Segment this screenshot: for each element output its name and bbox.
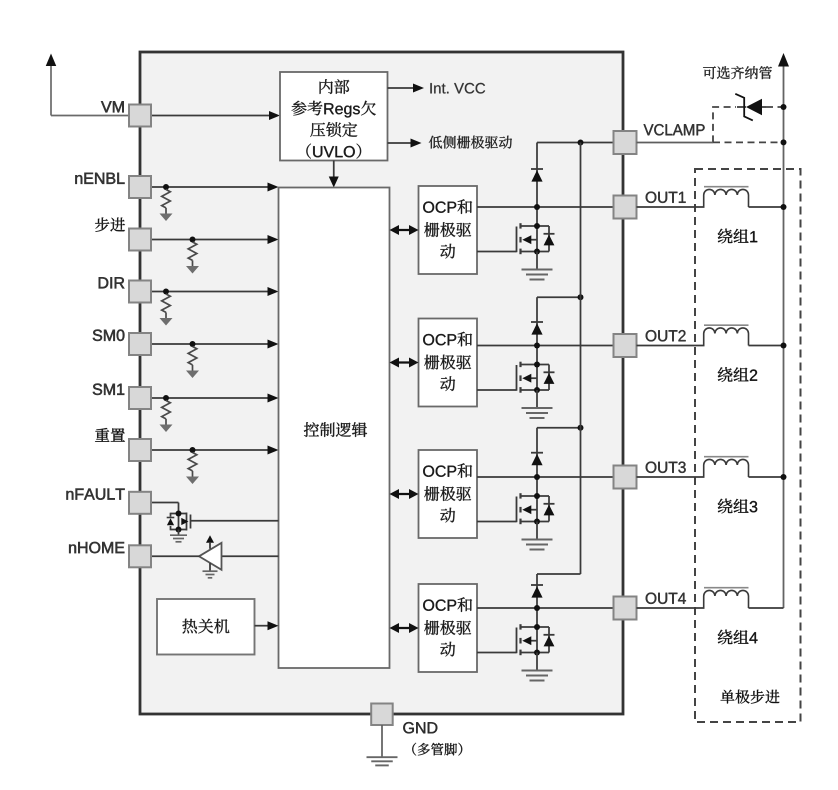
- clamp diode D2: [531, 297, 543, 348]
- wire winding 2 to supply rail: [749, 343, 787, 349]
- pull-down resistor on SM0: [186, 341, 199, 378]
- internal VCLAMP rail vertical: [580, 143, 582, 575]
- pin pad DIR: [129, 281, 151, 303]
- bidirectional bus arrow control logic to OCP 4: [390, 623, 419, 633]
- pin label 重置: [95, 428, 125, 442]
- motor winding L4: [704, 588, 749, 608]
- bidirectional bus arrow control logic to OCP 2: [390, 358, 419, 368]
- buffer U3 (nHOME output driver): [199, 535, 222, 571]
- bidirectional bus arrow control logic to OCP 1: [390, 225, 419, 235]
- pin label OUT3: [646, 462, 686, 473]
- junction vclamp dashed: [781, 139, 787, 145]
- wire VM external: [51, 115, 130, 117]
- motor winding L2: [704, 325, 749, 345]
- wire SM1 input: [151, 394, 279, 403]
- wire internal rail to clamp diode D3: [537, 425, 584, 431]
- pin pad VM: [129, 105, 151, 127]
- wire OCP 2 to OUT2: [477, 345, 614, 347]
- junction zener top: [781, 104, 787, 110]
- wire VM to UVLO block: [151, 111, 280, 120]
- wire OUT4 to winding 4: [637, 607, 705, 609]
- pin label SM0: [93, 330, 125, 341]
- wire winding 4 to supply rail: [749, 607, 784, 609]
- pin pad 步进: [129, 229, 151, 251]
- arrow thermal shutdown to control logic: [255, 621, 279, 630]
- pin label nHOME: [69, 542, 124, 553]
- clamp diode D1: [531, 143, 543, 211]
- VM supply arrow (to motor supply): [46, 54, 57, 116]
- power MOSFET Q4 with body diode: [517, 608, 555, 656]
- power MOSFET Q1 with body diode: [517, 207, 555, 255]
- wire winding 1 to supply rail: [749, 204, 787, 210]
- arrow Int. VCC output: [388, 84, 425, 93]
- wire SM0 input: [151, 340, 279, 349]
- motor winding L3: [704, 457, 749, 477]
- wire VCLAMP rail to clamp diode D1: [537, 140, 614, 146]
- wire gate drive 3: [477, 521, 517, 523]
- motor supply rail with arrow: [778, 53, 789, 608]
- pin label DIR: [99, 277, 125, 288]
- wire gate drive 2: [477, 389, 517, 391]
- ground under Q4: [522, 671, 553, 681]
- power MOSFET Q2 with body diode: [517, 346, 555, 394]
- pin label OUT4: [646, 593, 686, 604]
- wire nHOME buffer to pad: [151, 555, 200, 557]
- wire source Q1 to ground: [536, 252, 538, 270]
- label optional zener: [703, 66, 772, 79]
- pull-down resistor on 重置: [186, 447, 199, 484]
- pin label VM: [101, 101, 124, 112]
- pin pad SM1: [129, 387, 151, 409]
- pin pad SM0: [129, 333, 151, 355]
- arrow low-side gate drive output: [388, 139, 422, 148]
- device boundary (driver IC body): [140, 52, 623, 714]
- wire source Q2 to ground: [536, 390, 538, 408]
- pin label VCLAMP: [644, 124, 705, 135]
- wire GND to ground: [381, 725, 383, 757]
- wire control logic to nHOME buffer: [222, 555, 279, 557]
- wire nENBL input: [151, 183, 279, 192]
- UVLO regulator block U1 (internal reference / regs / UVLO): [280, 72, 388, 161]
- ground under nFAULT FET: [170, 530, 187, 542]
- label unipolar stepper: [721, 690, 780, 704]
- label winding 3: [718, 499, 757, 514]
- thermal shutdown block U4: [157, 599, 255, 655]
- zener diode DZ: [735, 94, 766, 121]
- pull-down resistor on nENBL: [160, 184, 173, 221]
- clamp diode D3: [531, 428, 543, 480]
- label winding 4: [718, 630, 758, 645]
- OCP and gate drive block U6: [419, 319, 478, 407]
- wire VCLAMP external: [637, 142, 714, 144]
- pin pad 重置: [129, 439, 151, 461]
- pin pad nHOME: [129, 545, 151, 567]
- wire nFAULT gate to control logic: [191, 520, 279, 522]
- pin label GND note: [412, 743, 462, 756]
- wire OUT1 to winding 1: [637, 206, 705, 208]
- OCP and gate drive block U5: [419, 186, 478, 274]
- wire OCP 1 to OUT1: [477, 206, 614, 208]
- unipolar stepper dashed enclosure: [695, 169, 801, 722]
- optional zener dashed enclosure: [713, 107, 784, 142]
- pin pad VCLAMP: [614, 131, 637, 154]
- pull-down resistor on 步进: [186, 237, 199, 274]
- ground under Q1: [522, 270, 553, 280]
- pin pad nENBL: [129, 176, 151, 198]
- pin pad GND: [371, 704, 393, 726]
- wire OUT2 to winding 2: [637, 345, 705, 347]
- arrow UVLO to control logic: [329, 161, 339, 188]
- pin pad OUT1: [614, 196, 637, 219]
- pin pad OUT4: [614, 597, 637, 620]
- pin pad OUT3: [614, 466, 637, 489]
- control logic block U2: [279, 188, 390, 669]
- wire gate drive 1: [477, 251, 517, 253]
- pull-down resistor on DIR: [160, 289, 173, 326]
- label low-side gate drive: [429, 136, 512, 149]
- open-drain transistor Q5 (nFAULT output): [167, 511, 191, 533]
- wire DIR input: [151, 287, 279, 296]
- pin label 步进: [95, 218, 125, 232]
- OCP and gate drive block U8: [419, 584, 478, 672]
- pin pad OUT2: [614, 334, 637, 357]
- wire OCP 4 to OUT4: [477, 607, 614, 609]
- wire source Q3 to ground: [536, 522, 538, 540]
- wire OUT3 to winding 3: [637, 476, 705, 478]
- wire gate drive 4: [477, 652, 517, 654]
- pin label OUT2: [646, 330, 686, 341]
- ground under Q2: [522, 408, 553, 418]
- wire nFAULT to open-drain FET: [151, 503, 179, 513]
- pin label GND: [403, 722, 437, 733]
- clamp diode D4: [531, 574, 543, 611]
- wire internal rail to clamp diode D4: [537, 573, 581, 575]
- ground under Q3: [522, 540, 553, 550]
- wire OCP 3 to OUT3: [477, 476, 614, 478]
- label winding 2: [718, 367, 757, 382]
- motor winding L1: [704, 187, 749, 207]
- ground under nHOME buffer: [203, 571, 218, 578]
- wire winding 3 to supply rail: [749, 474, 787, 480]
- ground symbol (multiple pins): [367, 757, 398, 765]
- wire 重置 input: [151, 446, 279, 455]
- wire source Q4 to ground: [536, 653, 538, 671]
- pull-down resistor on SM1: [160, 395, 173, 432]
- pin pad nFAULT: [129, 492, 151, 514]
- pin label nFAULT: [67, 489, 125, 500]
- label winding 1: [718, 229, 757, 244]
- pin label SM1: [93, 384, 124, 395]
- OCP and gate drive block U7: [419, 450, 478, 538]
- label Int. VCC: [430, 83, 485, 94]
- bidirectional bus arrow control logic to OCP 3: [390, 489, 419, 499]
- wire 步进 input: [151, 235, 279, 244]
- pin label OUT1: [646, 192, 686, 203]
- pin label nENBL: [75, 173, 124, 184]
- power MOSFET Q3 with body diode: [517, 477, 555, 525]
- wire internal rail to clamp diode D2: [537, 294, 584, 300]
